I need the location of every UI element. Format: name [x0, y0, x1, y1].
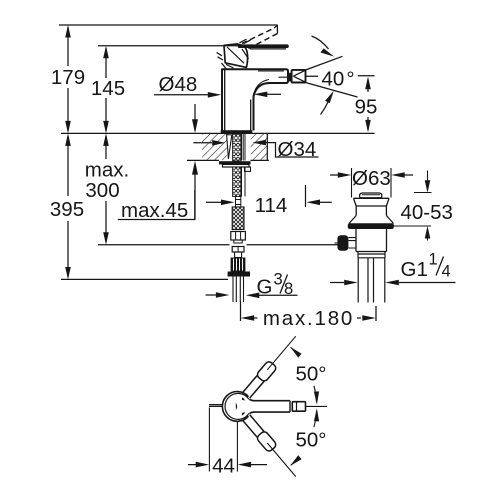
- counter slab right (hatched): [251, 134, 267, 160]
- base plate: [221, 130, 253, 133]
- aerator joint: [289, 73, 292, 82]
- dimension 145 line: [105, 48, 107, 131]
- svg-text:40-53: 40-53: [401, 201, 453, 224]
- faucet body inner edge lines: [225, 70, 251, 131]
- dimension max.180 extension lines: [241, 302, 377, 322]
- 50 degree upper reference line: [267, 336, 296, 370]
- svg-text:50°: 50°: [296, 429, 327, 452]
- dimension 95 line: [367, 79, 369, 130]
- threaded shank below clamp: [233, 167, 241, 197]
- svg-text:395: 395: [50, 198, 84, 221]
- svg-text:Ø34: Ø34: [278, 138, 317, 161]
- waste coupling: [358, 252, 385, 258]
- waste tailpipe: [358, 258, 385, 303]
- waste flange seal (dark): [348, 223, 394, 229]
- svg-text:Ø63: Ø63: [352, 167, 391, 190]
- 40-degree fan upper line: [306, 56, 343, 70]
- svg-text:300: 300: [85, 179, 119, 202]
- handle lever blade: [240, 44, 288, 48]
- svg-text:G1: G1: [401, 258, 428, 281]
- svg-text:40°: 40°: [322, 68, 355, 91]
- dimension 395 arrows: [65, 133, 71, 279]
- waste plug knob: [360, 193, 382, 198]
- deck top reference line: [61, 132, 375, 134]
- dimension 95 arrows: [365, 77, 371, 133]
- plan view: aerator neck: [290, 401, 292, 412]
- dimension max.300 arrows: [103, 133, 109, 244]
- svg-text:114: 114: [255, 194, 288, 217]
- dimension 179 arrows: [65, 25, 71, 133]
- dimension max.45 upper arrow: [194, 104, 196, 120]
- pull-rod / max.300 bottom line: [98, 244, 338, 246]
- connector block below rod: [232, 247, 244, 253]
- dimension 40-53: [427, 171, 429, 181]
- top reference line (raised handle level, 179 dim top): [59, 24, 277, 26]
- plan view: lower lever rod: [242, 414, 277, 453]
- dimension 179 line: [67, 27, 69, 131]
- wide collar band (dark): [228, 272, 250, 277]
- svg-text:44: 44: [212, 455, 235, 478]
- 395 bottom reference line / G1 1/4 dim line: [61, 279, 456, 282]
- clamp screw tab: [245, 167, 251, 171]
- 40-degree upper arc arrow: [312, 36, 329, 49]
- 114 right arrow: [319, 201, 332, 203]
- dimension max.45 lower arrow: [194, 174, 196, 220]
- svg-text:max.45: max.45: [121, 199, 188, 222]
- svg-text:G: G: [257, 276, 273, 299]
- svg-text:95: 95: [355, 96, 378, 119]
- shank smooth tube: [242, 134, 246, 161]
- plan view: spout sides: [250, 399, 291, 413]
- svg-text:Ø48: Ø48: [159, 73, 198, 96]
- rod-circle junction marks: [242, 397, 245, 415]
- waste cap: [349, 198, 394, 223]
- 50 degree lower reference line: [267, 443, 296, 477]
- waste: diameter63 dimension arrows: [330, 174, 413, 176]
- threaded shank coil texture above clamp: [233, 134, 241, 161]
- plan view: center notch: [236, 403, 237, 410]
- dimension 395 line: [67, 136, 69, 277]
- knurled nut (dark): [231, 258, 246, 272]
- handle raised position (dashed): [242, 28, 278, 48]
- waste body: [356, 229, 387, 252]
- reference line (handle rest level, 145 dim top): [98, 45, 240, 47]
- faucet body and spout outline: [222, 69, 288, 130]
- dimension diameter34 arrows: [193, 142, 212, 144]
- max.45 text box: [118, 190, 195, 220]
- aerator body: [292, 70, 306, 83]
- waste pull-rod knob (dark): [337, 235, 348, 251]
- 114 extension line (spout tip): [305, 185, 307, 207]
- plan view: rear tab (pull rod): [209, 405, 223, 407]
- 50 degree upper arc with arrows: [291, 347, 317, 402]
- dimension 145 arrows: [103, 46, 109, 134]
- handle lever underside line: [250, 48, 286, 50]
- dimension max.300 line: [105, 136, 107, 242]
- svg-text:4: 4: [442, 263, 451, 281]
- handle hub: [224, 44, 248, 67]
- svg-text:1: 1: [429, 251, 438, 269]
- G1 1/4 dimension arrows: [344, 280, 399, 286]
- svg-text:179: 179: [51, 66, 85, 89]
- dimension diameter48 leader and arrows: [154, 94, 209, 96]
- connector narrow neck: [235, 252, 242, 258]
- G 3/8 dimension arrows: [206, 294, 217, 296]
- knob stem: [348, 238, 356, 248]
- svg-text:max.180: max.180: [263, 307, 354, 330]
- 40-degree lower arc arrow: [321, 99, 330, 115]
- aerator cone lines: [293, 70, 305, 82]
- clamp wedge: [227, 135, 232, 159]
- svg-text:8: 8: [284, 280, 293, 298]
- 50 degree lower arc with arrows: [291, 411, 317, 466]
- svg-text:3: 3: [274, 271, 283, 289]
- 40-degree fan lower line: [306, 83, 358, 98]
- clamp plate: [219, 161, 251, 164]
- plan view: body circle inner: [225, 393, 249, 419]
- plan view: spout axis extension: [306, 405, 328, 407]
- hose break neck: [236, 197, 241, 208]
- spout axis line segments: [306, 75, 375, 77]
- braided hose segment: [232, 207, 244, 230]
- dimension 44 extension lines: [209, 408, 237, 472]
- dimension max.180 arrows: [241, 315, 376, 321]
- spout inner contour line: [253, 71, 288, 96]
- counter slab left (hatched): [202, 134, 227, 160]
- dimension 44 line and arrows: [188, 464, 267, 466]
- svg-text:145: 145: [91, 77, 125, 100]
- hose end hex nut: [231, 232, 246, 241]
- waste: diameter63 extension lines: [352, 168, 392, 198]
- plan view: upper lever rod: [242, 360, 277, 399]
- max.45 leader arrow to hose: [206, 201, 222, 203]
- hose end neck at rod: [234, 240, 242, 243]
- G 3/8 connection pipe: [233, 277, 244, 303]
- svg-text:50°: 50°: [296, 363, 327, 386]
- plan view: aerator box: [292, 402, 305, 412]
- plan view: body circle outer: [222, 392, 248, 422]
- rod stub to knob: [335, 242, 338, 244]
